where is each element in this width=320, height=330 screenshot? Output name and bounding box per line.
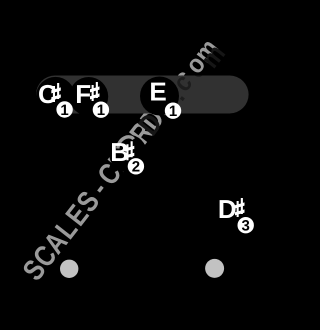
label D#	[218, 194, 245, 224]
watermark dark ghost copy clipped to bar	[17, 39, 231, 292]
svg-text:E: E	[149, 77, 166, 107]
finger badge 2 on B#	[128, 158, 144, 176]
finger badge 1 on F#	[93, 102, 109, 120]
svg-text:F: F	[75, 79, 91, 109]
svg-text:B: B	[110, 137, 129, 167]
label C#	[38, 79, 61, 109]
note disc C#	[36, 77, 75, 116]
finger badge 1 on E	[165, 103, 181, 121]
label B#	[110, 137, 134, 167]
svg-text:2: 2	[132, 159, 140, 176]
note disc F#	[69, 77, 108, 116]
finger badge 1 on C#	[56, 101, 72, 119]
svg-text:3: 3	[242, 218, 250, 235]
svg-text:1: 1	[60, 102, 68, 119]
finger badge 3 on D#	[238, 217, 254, 235]
svg-text:D: D	[218, 194, 237, 224]
note disc D#	[217, 191, 257, 231]
open string dot left	[60, 260, 78, 278]
svg-text:1: 1	[169, 103, 177, 120]
svg-text:1: 1	[97, 102, 105, 119]
note disc B#	[109, 135, 147, 173]
barre bar capsule	[36, 76, 249, 114]
watermark gray text SCALES-CHORDS.com	[16, 33, 224, 287]
label E	[149, 77, 166, 107]
watermark O top arc peeking above B# disc	[118, 137, 134, 149]
note disc E	[140, 77, 179, 116]
label F#	[75, 79, 99, 109]
open string dot right	[205, 259, 224, 278]
